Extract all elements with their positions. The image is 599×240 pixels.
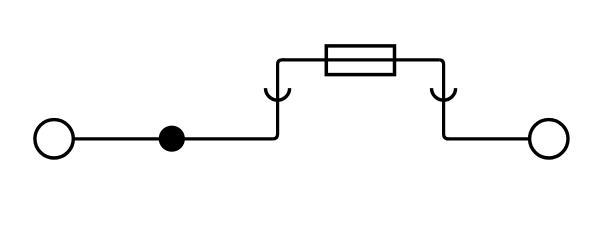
terminal X2 (right open circle): [530, 120, 568, 158]
plug disconnect contact (right arc): [432, 88, 456, 100]
fuse F1: [326, 46, 394, 75]
plug disconnect contact (left arc): [266, 88, 290, 100]
wire (left riser, rounded corners, bottom row up to fuse level): [273, 60, 285, 139]
junction node (filled dot): [159, 126, 185, 152]
wire (right riser, rounded corners, down from fuse level to bottom row): [439, 60, 449, 139]
wire (left terminal to left riser): [74, 137, 273, 140]
wire (right riser to right terminal): [446, 137, 530, 140]
terminal X1 (left open circle): [35, 120, 73, 158]
wire (top run through fuse): [282, 58, 439, 61]
